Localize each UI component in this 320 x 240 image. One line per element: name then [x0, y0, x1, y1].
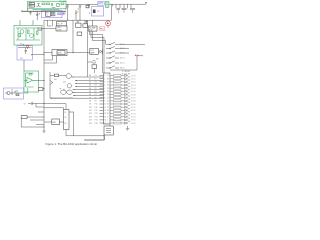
wire	[75, 80, 104, 82]
capacitor C5 polarized	[75, 10, 77, 20]
svg-text:10: 10	[104, 104, 106, 106]
svg-text:D9: D9	[89, 104, 91, 106]
resistor R31	[114, 109, 122, 111]
wire	[121, 90, 125, 92]
svg-text:Q12: Q12	[63, 82, 66, 84]
resistor R6	[28, 30, 30, 33]
green wire	[25, 73, 39, 87]
svg-text:23: 23	[107, 94, 109, 96]
wire	[121, 87, 125, 89]
pin 10 stub	[100, 103, 104, 105]
svg-text:2: 2	[107, 123, 108, 125]
svg-text:10u: 10u	[76, 22, 79, 24]
crystal X1	[51, 13, 55, 16]
svg-text:9: 9	[104, 101, 105, 103]
junction	[43, 126, 44, 127]
transistor Q5	[7, 91, 10, 94]
resistor R2	[47, 3, 50, 5]
antenna	[145, 2, 147, 4]
wire	[50, 97, 104, 99]
wire	[27, 9, 29, 12]
transistor Q11	[67, 90, 73, 94]
red mark	[60, 88, 61, 89]
svg-text:14: 14	[104, 116, 106, 118]
resistor R3	[61, 3, 64, 5]
blue dot	[23, 44, 24, 45]
svg-text:O2: O2	[64, 117, 66, 119]
wire	[110, 75, 114, 77]
svg-text:X1: X1	[64, 112, 66, 114]
wire	[107, 20, 109, 28]
junction	[74, 92, 75, 93]
wire	[110, 103, 114, 105]
wire	[110, 100, 114, 102]
wire	[32, 54, 44, 56]
wire	[128, 4, 132, 8]
junction	[74, 95, 75, 96]
wire	[69, 112, 104, 140]
switch S1	[106, 44, 110, 46]
junction	[43, 80, 44, 81]
wire	[21, 117, 44, 127]
wire	[110, 94, 114, 96]
svg-text:13: 13	[104, 113, 106, 115]
LED D11	[125, 76, 131, 79]
wire vertical main	[43, 20, 45, 131]
svg-text:P15: P15	[95, 120, 98, 122]
svg-text:6: 6	[104, 91, 105, 93]
svg-text:P12: P12	[95, 110, 98, 112]
svg-text:Q7: Q7	[11, 90, 13, 92]
input terminal J1	[21, 11, 22, 12]
wire	[121, 109, 125, 111]
wire top bus	[66, 3, 98, 5]
wire	[121, 75, 125, 77]
wire	[121, 97, 125, 99]
wire	[23, 10, 66, 12]
pin 11 stub	[100, 106, 104, 108]
svg-text:P14: P14	[95, 116, 98, 118]
varactor box	[100, 27, 105, 31]
junction	[76, 83, 77, 84]
svg-text:C9: C9	[24, 103, 26, 105]
transistor Q9	[67, 84, 71, 88]
main IC U1	[104, 73, 111, 124]
wire	[72, 76, 104, 78]
resistor R32	[114, 113, 122, 115]
svg-text:4.7 k6: 4.7 k6	[131, 94, 136, 96]
svg-text:P3: P3	[95, 82, 97, 84]
preemphasis group box	[17, 46, 32, 60]
red component	[135, 55, 140, 56]
svg-text:D14: D14	[89, 120, 92, 122]
svg-text:17: 17	[107, 75, 109, 77]
svg-text:P9: P9	[95, 101, 97, 103]
svg-text:7.6: 7.6	[97, 11, 100, 13]
svg-text:309: 309	[63, 13, 66, 15]
svg-text:11: 11	[104, 107, 106, 109]
pin 14 stub	[100, 116, 104, 118]
svg-text:MIC AMP: MIC AMP	[59, 0, 67, 3]
wire	[121, 116, 125, 118]
red dot	[132, 10, 133, 11]
junction	[43, 103, 44, 104]
svg-text:P7: P7	[95, 94, 97, 96]
svg-text:22: 22	[107, 91, 109, 93]
pin 13 stub	[100, 113, 104, 115]
LED D20	[125, 105, 131, 108]
transistor Q1	[37, 4, 41, 8]
wire	[111, 4, 113, 20]
wire	[39, 79, 45, 81]
pin 7 stub	[100, 94, 104, 96]
svg-text:.01: .01	[77, 9, 79, 11]
junction	[74, 89, 75, 90]
wire	[44, 104, 66, 110]
svg-text:P11: P11	[95, 107, 98, 109]
junction	[43, 88, 44, 89]
wire	[67, 52, 90, 54]
wire	[42, 28, 56, 30]
svg-text:4.7 k8: 4.7 k8	[131, 101, 136, 103]
wire	[43, 88, 44, 90]
block lavender 1	[58, 13, 61, 15]
red dot	[123, 10, 124, 11]
red dot	[89, 13, 90, 14]
pin 4 stub	[100, 84, 104, 86]
svg-text:D1: D1	[89, 78, 91, 80]
svg-text:4.7 k0: 4.7 k0	[131, 104, 136, 106]
capacitor C6	[122, 8, 127, 12]
opamp group box	[24, 71, 39, 92]
wire	[110, 90, 114, 92]
ground	[85, 20, 87, 23]
junction	[43, 54, 44, 55]
resistor R20	[114, 75, 122, 77]
wire	[110, 97, 114, 99]
svg-text:P10: P10	[95, 104, 98, 106]
green wire	[33, 9, 59, 10]
wire	[109, 3, 146, 5]
svg-text:19: 19	[107, 82, 109, 84]
switch S2	[106, 48, 110, 50]
LED D24	[125, 118, 131, 121]
resistor R8	[29, 74, 32, 76]
pin 12 stub	[100, 109, 104, 111]
svg-text:4.7 k1: 4.7 k1	[131, 107, 136, 109]
LED D21	[125, 108, 131, 111]
svg-text:D11: D11	[89, 110, 92, 112]
svg-text:8: 8	[104, 97, 105, 99]
svg-text:D15: D15	[89, 123, 92, 125]
capacitor C8	[25, 48, 27, 54]
svg-text:4.7 k2: 4.7 k2	[131, 82, 136, 84]
resistor R23	[114, 84, 122, 86]
pll box U9	[56, 22, 66, 26]
oscillator group box	[92, 7, 104, 16]
svg-text:7: 7	[104, 94, 105, 96]
red dot	[100, 28, 101, 29]
resistor R5	[19, 34, 21, 37]
resistor R1	[42, 3, 45, 5]
junction	[72, 52, 73, 53]
mic preamp group box	[28, 1, 67, 9]
svg-text:K4 2.2: K4 2.2	[120, 58, 125, 60]
svg-text:29: 29	[107, 113, 109, 115]
pin 1 stub	[100, 75, 104, 77]
green wire	[24, 88, 28, 93]
wire	[121, 78, 125, 80]
wire	[20, 20, 33, 25]
LED D1	[106, 21, 111, 26]
reset box	[52, 119, 60, 125]
wire	[110, 84, 114, 86]
LED D17	[125, 95, 131, 98]
capacitor C3	[66, 4, 68, 20]
pin 5 stub	[100, 87, 104, 89]
red component	[26, 45, 29, 48]
crystal X2	[93, 10, 96, 14]
svg-text:4.7 k1: 4.7 k1	[131, 79, 136, 81]
svg-text:G3: G3	[64, 123, 66, 125]
svg-text:D10: D10	[89, 107, 92, 109]
op-amp U5	[27, 78, 33, 84]
svg-text:D: 1N4148: D: 1N4148	[122, 71, 130, 73]
wire	[73, 95, 104, 97]
ground	[43, 131, 46, 133]
buffer box 2	[83, 24, 88, 28]
wire	[44, 51, 52, 53]
block lavender 2	[61, 13, 64, 15]
svg-text:K5 2.2: K5 2.2	[120, 63, 125, 65]
capacitor C10	[117, 8, 121, 12]
junction	[76, 80, 77, 81]
svg-text:4.7 k4: 4.7 k4	[131, 88, 136, 90]
transistor Q4	[30, 34, 34, 38]
junction	[51, 98, 52, 99]
resistor R27	[114, 97, 122, 99]
switch S3	[106, 52, 110, 54]
modulator group box	[42, 10, 63, 18]
component box	[54, 74, 58, 77]
wire	[75, 83, 104, 85]
driver box U4	[88, 26, 97, 31]
svg-text:D12: D12	[89, 113, 92, 115]
pin 8 stub	[100, 97, 104, 99]
junction	[67, 20, 68, 21]
svg-text:25: 25	[107, 101, 109, 103]
resistor R25	[114, 90, 122, 92]
green mark	[106, 3, 108, 6]
ground	[88, 4, 90, 7]
svg-text:27: 27	[107, 107, 109, 109]
LED D19	[125, 102, 131, 105]
capacitor C9	[28, 102, 44, 105]
pin 16 stub	[100, 122, 104, 124]
wire	[110, 87, 114, 89]
buffer box	[76, 23, 82, 27]
capacitor C2 polarized	[36, 11, 38, 20]
wire main bus	[44, 19, 112, 21]
resistor R21	[114, 78, 122, 80]
agc group box	[4, 88, 24, 99]
svg-text:2: 2	[104, 78, 105, 80]
capacitor C4	[79, 4, 81, 20]
label MIC1	[29, 2, 35, 4]
pin 15 stub	[100, 119, 104, 121]
LED D22	[125, 111, 131, 114]
wire	[110, 106, 114, 108]
wire	[121, 113, 125, 115]
label MIC2	[29, 5, 35, 7]
svg-text:4.7 k6: 4.7 k6	[131, 123, 136, 125]
svg-text:12: 12	[104, 110, 106, 112]
junction	[43, 116, 44, 117]
svg-text:D8: D8	[89, 101, 91, 103]
rf group box	[105, 2, 109, 8]
wire	[121, 94, 125, 96]
resistor R22	[114, 81, 122, 83]
LED D25	[125, 121, 131, 125]
inductor L1	[86, 5, 89, 8]
pin 6 stub	[100, 90, 104, 92]
inner box	[57, 51, 65, 55]
resistor R35	[114, 122, 122, 124]
svg-text:P16: P16	[95, 123, 98, 125]
label box	[38, 88, 43, 91]
wire	[88, 62, 95, 73]
wire	[121, 103, 125, 105]
svg-text:D2: D2	[89, 82, 91, 84]
wire	[73, 92, 104, 94]
svg-text:CTRL: CTRL	[57, 29, 62, 31]
xtal box X3	[104, 126, 113, 135]
junction	[76, 86, 77, 87]
pin 3 stub	[100, 81, 104, 83]
wire	[23, 60, 25, 71]
capacitor C7	[130, 8, 135, 12]
svg-text:1: 1	[107, 120, 108, 122]
plus mark	[39, 13, 40, 14]
switch S4	[106, 57, 110, 59]
LED D16	[125, 92, 131, 95]
svg-text:K6 2.2: K6 2.2	[120, 68, 125, 70]
antenna block box	[98, 1, 104, 5]
svg-text:4.7 k5: 4.7 k5	[131, 120, 136, 122]
transistor Q3	[20, 30, 24, 34]
wire	[50, 72, 73, 98]
xtal box	[92, 65, 97, 69]
svg-text:4.7 k7: 4.7 k7	[131, 98, 136, 100]
wire	[110, 122, 114, 124]
wire	[5, 91, 23, 95]
svg-text:4.7 k0: 4.7 k0	[131, 75, 136, 77]
LED D12	[125, 80, 131, 83]
svg-text:24: 24	[107, 97, 109, 99]
resistor R30	[114, 106, 122, 108]
transistor Q2	[56, 3, 59, 6]
wire	[78, 20, 93, 26]
resistor R9	[16, 94, 19, 95]
svg-text:4.7 k5: 4.7 k5	[131, 91, 136, 93]
wire	[110, 45, 145, 71]
svg-text:4.7 k3: 4.7 k3	[131, 113, 136, 115]
svg-text:21: 21	[107, 88, 109, 90]
LED D14	[125, 86, 131, 89]
LED D18	[125, 99, 131, 102]
diode D2	[100, 49, 103, 54]
LED D13	[125, 83, 131, 86]
svg-text:5: 5	[104, 88, 105, 90]
plus mark	[77, 11, 78, 12]
resistor R28	[114, 100, 122, 102]
timer box U8	[64, 110, 70, 130]
control box U7	[90, 49, 99, 55]
crystal Y1	[93, 60, 95, 65]
wire	[73, 89, 104, 91]
ground	[29, 11, 32, 15]
svg-text:20: 20	[107, 85, 109, 87]
junction	[79, 20, 80, 21]
junction	[24, 47, 25, 48]
wave shaper box U6	[52, 50, 67, 56]
resistor R10	[21, 116, 27, 119]
switch S6	[106, 67, 110, 69]
switch S5	[106, 62, 110, 64]
audio group box	[14, 25, 42, 45]
junction	[43, 52, 44, 53]
vco box U3	[56, 26, 67, 31]
svg-text:PLL IF: PLL IF	[57, 24, 63, 26]
svg-text:4: 4	[104, 85, 105, 87]
blue mark	[64, 89, 65, 90]
resistor R24	[114, 87, 122, 89]
svg-text:P2: P2	[95, 78, 97, 80]
wire	[110, 113, 114, 115]
wire	[48, 20, 53, 26]
svg-text:14: 14	[46, 15, 48, 17]
svg-text:28: 28	[107, 110, 109, 112]
pin 2 stub	[100, 78, 104, 80]
svg-text:P13: P13	[95, 113, 98, 115]
wire	[121, 106, 125, 108]
LED D10	[125, 73, 131, 76]
wire	[110, 109, 114, 111]
svg-text:47u: 47u	[20, 58, 23, 60]
resistor R26	[114, 94, 122, 96]
crystal mark	[106, 129, 111, 133]
svg-text:0: 0	[107, 116, 108, 118]
svg-text:3: 3	[104, 82, 105, 84]
wire	[113, 4, 124, 8]
LED D15	[125, 89, 131, 92]
transistor Q10	[61, 90, 66, 94]
LED D23	[125, 114, 131, 117]
svg-text:MOD: MOD	[58, 53, 63, 55]
wire	[121, 122, 125, 124]
ground	[126, 126, 129, 130]
red mark	[26, 50, 27, 51]
pin 9 stub	[100, 100, 104, 102]
svg-text:D13: D13	[89, 116, 92, 118]
svg-text:4.7 k4: 4.7 k4	[131, 117, 136, 119]
svg-text:x2: x2	[102, 29, 104, 31]
svg-text:18: 18	[107, 78, 109, 80]
wire	[44, 56, 57, 63]
svg-text:15: 15	[104, 120, 106, 122]
svg-text:1: 1	[104, 75, 105, 77]
wire	[73, 20, 88, 77]
